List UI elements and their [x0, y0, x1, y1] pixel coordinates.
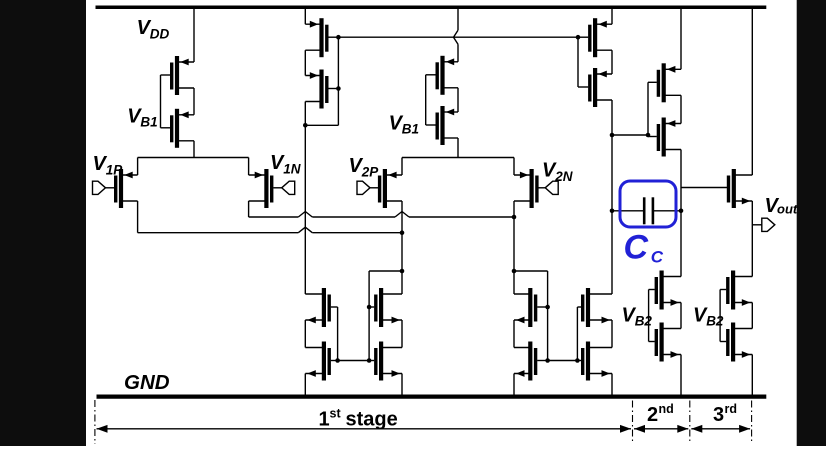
- svg-text:stage: stage: [346, 409, 398, 431]
- svg-text:st: st: [330, 407, 342, 421]
- transistor M5 (PMOS cascode, VB1): [426, 56, 458, 95]
- wire tail2 to V2P source: [401, 158, 403, 176]
- transistor N6 (NMOS diode cascode): [514, 342, 548, 381]
- label VB1 left: [127, 106, 157, 130]
- node dot: line A end junction: [512, 215, 517, 220]
- jog feed to N5/N6 gates: [514, 270, 548, 272]
- wire V1P drain to line B: [137, 201, 139, 233]
- wire M5 drain to M6 source: [457, 88, 459, 112]
- wire V1N drain to line A: [248, 201, 250, 217]
- wire N6 source to GND: [513, 374, 515, 395]
- hop of vertical over bias line: [454, 30, 459, 44]
- wire N3 source to N4 drain: [401, 320, 403, 348]
- transistor V1N input PMOS: [249, 169, 272, 208]
- compensation cap left wire: [612, 210, 644, 212]
- link 2nd stage output to M9/M10 gates: [612, 134, 648, 136]
- svg-text:C: C: [651, 248, 664, 267]
- svg-text:1N: 1N: [283, 162, 301, 177]
- hop line A over V2P drain: [395, 212, 409, 218]
- transistor N7 (NMOS mirror cascode): [577, 288, 612, 327]
- wire tail1 to V1N source: [248, 158, 250, 176]
- svg-text:1: 1: [319, 409, 330, 431]
- tail wire of first differential pair: [138, 157, 249, 159]
- transistor N8 (NMOS mirror cascode): [577, 342, 612, 381]
- svg-text:DD: DD: [150, 27, 170, 42]
- wire V2P port to gate: [370, 187, 378, 189]
- svg-text:rd: rd: [725, 402, 738, 416]
- wire V2N gate to port: [537, 187, 545, 189]
- gate tie of M7/M8: [577, 37, 579, 87]
- wire M6 drain to tail node 2: [457, 138, 459, 158]
- line B (V1P/V2P drains bus) with hop: [138, 232, 299, 234]
- wire VDD to M7 source: [611, 7, 613, 24]
- svg-text:B2: B2: [706, 314, 724, 329]
- wire M9 drain to M10 source: [680, 95, 682, 123]
- label GND: [124, 371, 170, 394]
- input/output port V2P: [357, 181, 370, 194]
- svg-text:2N: 2N: [554, 169, 573, 184]
- transistor M4 (PMOS diode cascode): [305, 70, 338, 109]
- wire M10 drain down to N9 drain (3rd stage input node): [680, 150, 682, 277]
- wire M2 drain to tail node 1: [193, 141, 195, 158]
- gate tie of M1/M2 (VB1): [160, 75, 162, 128]
- Cc highlight box (blue): [620, 181, 676, 227]
- node dot: N3/N4 gate feed: [400, 269, 405, 274]
- hop line A over X1: [298, 212, 312, 218]
- gate tie of M5/M6 (VB1): [425, 75, 427, 125]
- node dot: Cc right plate node: [679, 209, 684, 214]
- node dot: N5 gate tap: [545, 305, 550, 310]
- label VDD: [137, 17, 170, 42]
- transistor N1 (NMOS mirror cascode): [305, 288, 337, 327]
- stage divider dash-dot 1st/2nd: [632, 401, 634, 445]
- svg-text:C: C: [624, 229, 649, 267]
- wire tail1 to V1P source: [137, 158, 139, 176]
- node dot: N2 gate tap: [335, 358, 340, 363]
- transistor N5 (NMOS diode cascode): [514, 288, 548, 327]
- wire VDD to M3 source: [304, 7, 306, 24]
- transistor V2N input PMOS: [514, 169, 537, 208]
- jog feed to N3/N4 gates: [369, 270, 402, 272]
- gate tie of N9/N10 (VB2): [648, 290, 650, 342]
- node dot: bias line left / M3 gate: [336, 35, 341, 40]
- node dot: Cc left plate node: [610, 209, 615, 214]
- svg-text:nd: nd: [659, 402, 674, 416]
- transistor M2 (PMOS cascode, VB1): [161, 109, 195, 148]
- hop line B over X1: [298, 227, 312, 233]
- wire N4 source to GND: [401, 374, 403, 395]
- wire V1P port to gate: [106, 187, 115, 189]
- tail wire of second differential pair: [402, 157, 514, 159]
- node dot: diode link to drain: [303, 123, 308, 128]
- node dot: M4 gate tap: [336, 86, 341, 91]
- transistor M1 (PMOS cascode, VB1): [161, 56, 195, 95]
- label V1P: [93, 153, 124, 178]
- Vout wire to port: [752, 224, 762, 226]
- node dot: N4 gate tap: [367, 358, 372, 363]
- svg-text:3: 3: [713, 404, 724, 426]
- node dot: bias line right / M7 gate: [576, 35, 581, 40]
- transistor V2P input PMOS: [380, 169, 402, 208]
- transistor N10 (NMOS current sink, VB2): [649, 323, 681, 362]
- wire M3 drain to M4 source: [304, 50, 306, 75]
- label Vout: [765, 195, 798, 217]
- gate tie of N7/N8: [576, 307, 578, 361]
- stage divider dash-dot left: [94, 400, 96, 444]
- wire N9 source to N10 drain: [680, 303, 682, 329]
- VDD rail: [96, 6, 767, 10]
- node dot: 2nd stage out to M9/M10 gate link: [610, 133, 615, 138]
- wire N12 source to GND: [751, 355, 753, 395]
- gate tie of M9/M10: [647, 82, 649, 135]
- wire N10 source to GND: [680, 355, 682, 395]
- gate tie of N11/N12 (VB2): [719, 290, 721, 342]
- transistor M11 output follower NMOS: [729, 169, 753, 208]
- label VB1 middle: [389, 113, 419, 137]
- label V1N: [270, 152, 301, 177]
- wire VDD to M5 source (hops bias line): [457, 7, 459, 30]
- capacitor Cc plates: [644, 197, 653, 224]
- input/output port Vout: [762, 218, 775, 231]
- wire tail2 to V2N source: [513, 158, 515, 176]
- label VB2 left: [622, 305, 653, 329]
- 3rd stage dimension arrow: [691, 425, 750, 433]
- label V2N: [542, 160, 573, 185]
- transistor V1P input PMOS: [116, 169, 138, 208]
- label 1st stage: [319, 407, 398, 431]
- node dot: line B end junction: [400, 230, 405, 235]
- PMOS mirror bias line (M3/M4 gates to M7/M8 gates): [338, 36, 578, 38]
- 1st stage dimension arrow: [97, 425, 632, 433]
- wire VDD to M11 drain: [751, 7, 753, 175]
- wire VDD to M9 source: [680, 7, 682, 69]
- compensation cap right wire: [653, 210, 681, 212]
- transistor M9 (PMOS 2nd stage cascode): [648, 63, 681, 102]
- diode connection link of M3/M4 cascode: [305, 124, 338, 126]
- transistor M8 (PMOS mirror cascode): [578, 68, 612, 107]
- wire N1 source to N2 drain: [304, 320, 306, 348]
- stage divider dash-dot right: [751, 401, 753, 445]
- transistor N9 (NMOS current sink, VB2): [649, 271, 681, 310]
- node dot: N8 gate tap: [575, 358, 580, 363]
- gate tie of M3/M4: [337, 37, 339, 125]
- node dot: N5/N6 gate feed: [512, 269, 517, 274]
- wire N7 source to N8 drain: [611, 320, 613, 348]
- wire M7 drain to M8 source: [611, 50, 613, 74]
- wire N8 source to GND: [611, 374, 613, 395]
- wire V2P drain down through line B to N3 drain: [401, 201, 403, 294]
- stage divider dash-dot 2nd/3rd: [689, 401, 691, 445]
- input/output port V2N: [545, 181, 558, 194]
- wire N5 source to N6 drain: [513, 320, 515, 348]
- svg-text:2: 2: [647, 404, 658, 426]
- svg-text:B2: B2: [635, 314, 653, 329]
- svg-text:GND: GND: [124, 371, 170, 394]
- transistor N11 (NMOS current sink, VB2): [720, 271, 752, 310]
- node dot: M10 gate tap: [646, 133, 651, 138]
- wire N11 source to N12 drain: [751, 303, 753, 329]
- transistor M10 (PMOS 2nd stage cascode): [648, 118, 681, 157]
- gate link N1/N2 to N3/N4: [338, 360, 370, 362]
- input/output port V1P: [93, 181, 106, 194]
- svg-text:2P: 2P: [361, 165, 380, 180]
- node dot: N6 gate tap: [545, 358, 550, 363]
- label VB2 right: [693, 305, 724, 329]
- wire VDD to M1 source: [193, 7, 195, 62]
- gate tie of N5/N6: [547, 271, 549, 361]
- label Cc (blue): [624, 229, 664, 267]
- svg-text:B1: B1: [402, 122, 419, 137]
- wire M1 drain to M2 source: [193, 88, 195, 115]
- line A (V1N/V2N drains bus) with hops: [249, 216, 299, 218]
- transistor M6 (PMOS cascode, VB1): [426, 106, 458, 145]
- transistor N4 (NMOS diode cascode): [369, 342, 402, 381]
- transistor N3 (NMOS diode cascode): [369, 288, 402, 327]
- svg-text:1P: 1P: [106, 163, 124, 178]
- GND rail: [97, 395, 767, 399]
- gate tie of N1/N2: [337, 307, 339, 361]
- 2nd stage dimension arrow: [634, 425, 688, 433]
- wire M4 drain down to N1 drain (node X1): [304, 102, 306, 295]
- transistor N12 (NMOS current sink, VB2): [720, 323, 752, 362]
- svg-text:B1: B1: [140, 115, 157, 130]
- wire 3rd stage input: M10 drain node to M11 gate: [681, 187, 727, 189]
- svg-text:out: out: [777, 202, 798, 217]
- wire V1N gate to port: [273, 187, 281, 189]
- wire N2 source to GND: [304, 374, 306, 395]
- transistor M3 (PMOS diode cascode): [305, 18, 338, 57]
- transistor M7 (PMOS mirror cascode): [578, 18, 612, 57]
- gate link N5/N6 to N7/N8: [548, 360, 578, 362]
- node dot: N3 gate tap: [367, 305, 372, 310]
- gate tie of N3/N4 with feed from line B: [368, 271, 370, 361]
- input/output port V1N: [282, 181, 295, 194]
- label 2nd: [647, 402, 674, 426]
- transistor N2 (NMOS mirror cascode): [305, 342, 337, 381]
- label 3rd: [713, 402, 737, 426]
- label V2P: [349, 155, 380, 180]
- wire M8 drain down to N7 drain (2nd stage output node): [611, 100, 613, 294]
- wire M11 source down to N11 drain (Vout node): [751, 201, 753, 277]
- wire V2N drain down through line A to N5 drain: [513, 201, 515, 294]
